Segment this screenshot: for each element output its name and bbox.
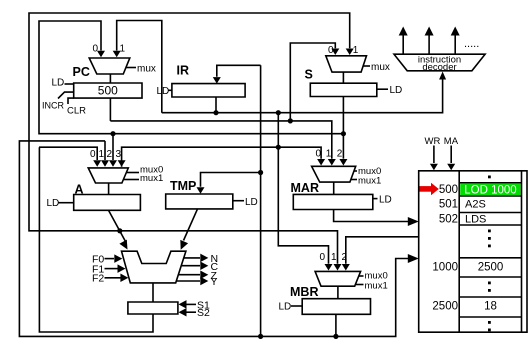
label mux1 (MBR) [356, 284, 364, 286]
wire S-mux to S register [342, 72, 344, 83]
junction dot node bus134/S-out [341, 131, 346, 136]
label S2 [179, 308, 187, 317]
svg-text:1000: 1000 [432, 262, 458, 274]
wire MAR-mux to MAR register [333, 182, 335, 194]
wire S output down to MAR-mux input-2 [342, 97, 344, 159]
svg-text:PC: PC [73, 65, 90, 79]
svg-text:CLR: CLR [67, 106, 86, 117]
wire TMP input (from MBR bus vertical x260.6) [201, 173, 261, 187]
decoder output arrow 3 [454, 35, 456, 54]
register A box [74, 195, 141, 211]
wire A-out to MBR-mux input-1 [120, 231, 338, 264]
svg-text:2: 2 [342, 252, 348, 263]
wire A-mux input-1 from MBR bus (left loop x19) [104, 141, 106, 160]
svg-text:MA: MA [444, 136, 459, 147]
wire ALU result loop to A-mux input-0 [39, 147, 153, 332]
mux PC trapezoid [89, 58, 130, 74]
wire PC-mux input-1 (from IR bus y112 via x162 top loop) [117, 21, 162, 113]
memory address/value divider [458, 171, 460, 332]
wire MBR-mux to MBR register [337, 286, 339, 299]
wire MBR output down to bus [335, 314, 337, 336]
svg-text:2: 2 [107, 149, 113, 160]
svg-text:LD: LD [379, 195, 392, 206]
wire MA control arrow [450, 146, 452, 164]
svg-text:2500: 2500 [478, 262, 504, 274]
register shifter box S1S2 [128, 302, 178, 314]
register MBR box [302, 299, 370, 315]
svg-text:2500: 2500 [432, 301, 458, 313]
label mux (S) [363, 65, 370, 67]
svg-text:LD: LD [47, 198, 60, 209]
svg-text:S2: S2 [197, 307, 210, 319]
wire MBR/IR/TMP feed vertical x260.6 [260, 65, 262, 336]
junction dot node bus121/x290 [288, 118, 293, 123]
decoder output arrow 2 [428, 35, 430, 54]
label mux0 (MBR) [359, 275, 364, 277]
svg-text:0: 0 [316, 149, 322, 160]
register MAR box [293, 194, 373, 209]
svg-text:1: 1 [99, 149, 105, 160]
wire MBR-mux input-0 (from IR bus y112 via x278) [278, 113, 328, 264]
label S1 [179, 300, 187, 309]
wire TMP output diagonal to ALU right input [184, 209, 198, 241]
memory row borders [459, 182, 521, 184]
wire PC output down to bus y121 [109, 98, 111, 121]
wire ALU output to shifter box [152, 283, 154, 302]
svg-text:WR: WR [425, 136, 441, 147]
label LD S [377, 88, 388, 90]
svg-text:INCR: INCR [42, 101, 64, 111]
label Y output [176, 280, 200, 282]
label CLR PC [68, 98, 74, 104]
mux A trapezoid [88, 168, 128, 183]
wire A-mux to A register [108, 183, 110, 195]
svg-text:LD: LD [279, 302, 292, 313]
label LD MAR [373, 198, 378, 200]
wire A-mux input-2 from bus y134 [112, 134, 114, 160]
memory value column right edge [521, 171, 523, 332]
svg-text:1: 1 [353, 45, 359, 56]
svg-text:A2S: A2S [465, 199, 486, 211]
wire IR input (from MBR bus vertical x260.6) [217, 65, 261, 77]
svg-text:500: 500 [98, 84, 118, 98]
wire bus PC-out y121 to MAR-mux input-1 [110, 121, 331, 159]
svg-text:18: 18 [484, 301, 497, 313]
svg-text:LOD 1000: LOD 1000 [464, 184, 516, 196]
svg-text:2: 2 [337, 149, 343, 160]
junction dot node bus134/A-mux2 [110, 131, 115, 136]
svg-text:0: 0 [93, 44, 99, 55]
svg-text:mux1: mux1 [140, 173, 163, 184]
label Z flag [178, 274, 200, 276]
pointer red arrow to address 500 [420, 186, 432, 192]
svg-text:Y: Y [211, 276, 218, 288]
svg-text:0: 0 [320, 252, 326, 263]
label mux1 (MAR) [351, 179, 357, 181]
label mux0 (A) [126, 172, 139, 174]
svg-text:0: 0 [328, 45, 334, 56]
memory box [419, 171, 527, 332]
wire A output diagonal to ALU left input [109, 210, 126, 241]
memory dots group 3 [488, 321, 491, 324]
memory highlighted cell 500 [460, 184, 520, 195]
svg-text:mux: mux [371, 62, 390, 73]
svg-text:mux1: mux1 [358, 176, 381, 187]
svg-text:LD: LD [157, 86, 170, 97]
register S box [310, 83, 377, 96]
svg-text:decoder: decoder [422, 62, 456, 73]
svg-text:LDS: LDS [465, 214, 486, 226]
wire S-mux input-1 loop (A-out to S via outer left) [29, 13, 350, 231]
memory top dot [488, 176, 491, 179]
svg-text:MBR: MBR [290, 285, 318, 299]
svg-text:500: 500 [439, 184, 458, 196]
svg-text:F2: F2 [92, 273, 104, 285]
junction dot MBR-bus/x260.6 [258, 334, 263, 339]
alu ALU funnel shape [122, 251, 186, 283]
svg-text:LD: LD [245, 197, 258, 208]
mux MAR trapezoid [312, 166, 356, 182]
wire S-mux input-1 arrowhead [346, 49, 354, 56]
wire S-mux input-0 (from PC bus y121 via x290 up) [290, 43, 335, 121]
svg-text:LD: LD [52, 78, 65, 89]
svg-text:.....: ..... [464, 38, 479, 50]
junction dot TMP-in on x260.6 [258, 170, 263, 175]
label N flag [184, 257, 201, 259]
decoder output arrow 1 [402, 35, 404, 54]
wire bus y147 left segment (ALU loop to A-mux input-0) [39, 147, 97, 160]
junction dot bus112/x278 [276, 110, 281, 115]
svg-text:3: 3 [116, 149, 122, 160]
wire PC-mux to PC register [109, 74, 111, 83]
svg-text:501: 501 [439, 199, 458, 211]
junction dot A-out on S-loop bus y231 [117, 228, 122, 233]
svg-text:S: S [305, 68, 313, 82]
svg-text:1: 1 [326, 149, 332, 160]
svg-text:mux: mux [137, 64, 156, 75]
svg-text:1: 1 [120, 44, 126, 55]
svg-text:mux1: mux1 [365, 281, 388, 292]
label LD TMP [233, 200, 244, 202]
svg-text:IR: IR [177, 64, 190, 78]
junction dot bus147/x278 [276, 145, 281, 150]
label mux0 (MAR) [354, 170, 358, 172]
instruction decoder trapezoid [394, 54, 485, 71]
register IR box [172, 84, 245, 97]
wire WR control arrow [433, 146, 435, 164]
mux MBR trapezoid [315, 271, 361, 286]
wire bus y147 right segment (IR operand to A-mux3 / MAR-mux0) [122, 147, 322, 167]
register PC box [74, 83, 142, 98]
wire MBR-mux input-2 (from memory data out) [346, 237, 419, 264]
label C flag [181, 265, 200, 267]
wire MAR output to memory address port [334, 210, 408, 222]
label mux1 (A) [124, 179, 140, 181]
wire IR output to bus y112 [215, 97, 217, 113]
svg-text:1: 1 [331, 252, 337, 263]
label INCR PC [58, 92, 74, 98]
junction dot IR-out on bus y112 [213, 110, 218, 115]
memory dots group 1 [488, 230, 491, 233]
wire decoder input (from IR bus y112) [162, 79, 443, 113]
junction dot MBR-bus/MBR-out [333, 334, 338, 339]
svg-text:LD: LD [390, 85, 403, 96]
label mux (PC) [126, 67, 137, 69]
svg-text:0: 0 [90, 149, 96, 160]
svg-text:502: 502 [439, 214, 458, 226]
register TMP box [166, 194, 233, 209]
svg-text:MAR: MAR [291, 181, 319, 195]
svg-text:TMP: TMP [170, 179, 196, 193]
wire MBR-out bus loop (x19 left edge, bottom, to memory) [19, 141, 408, 337]
mux S trapezoid [326, 56, 367, 72]
wire PC-mux input-0 loop (from bus y134 up left side x39) [39, 21, 343, 134]
memory dots group 2 [488, 282, 491, 285]
